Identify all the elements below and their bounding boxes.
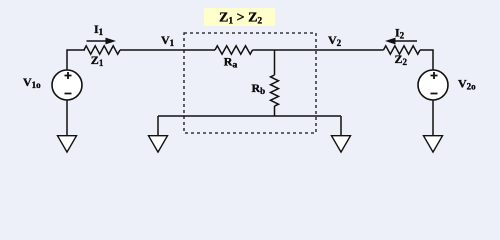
wire Ra to Z2 <box>253 49 384 51</box>
wire bottom-left drop <box>157 116 159 136</box>
arrow I2 <box>385 38 417 45</box>
wire Z1 to Ra <box>120 49 215 51</box>
ground (V1o) <box>58 136 77 152</box>
svg-text:Z1 > Z2: Z1 > Z2 <box>219 11 262 27</box>
resistor Z1 <box>84 46 120 54</box>
wire bottom rail <box>158 115 341 117</box>
wire Z2 to top-right corner <box>420 50 433 70</box>
arrow I1 <box>87 38 117 45</box>
wire V1o below <box>66 100 68 136</box>
voltage source V2o <box>418 70 448 100</box>
resistor Ra <box>215 46 252 54</box>
resistor Rb <box>271 75 279 106</box>
wire Rb top lead <box>274 50 276 75</box>
ground (bottom rail right) <box>332 136 351 152</box>
ground (V2o) <box>424 136 443 152</box>
label box Z1 > Z2 <box>204 8 275 26</box>
dashed box <box>184 33 316 133</box>
wire V2o below <box>432 100 434 136</box>
voltage source V1o <box>52 70 82 100</box>
wire top-left corner to Z1 <box>67 50 85 70</box>
ground (bottom rail left) <box>149 136 168 152</box>
wire bottom-right drop <box>340 116 342 136</box>
resistor Z2 <box>384 46 420 54</box>
wire Rb bottom lead <box>274 106 276 116</box>
